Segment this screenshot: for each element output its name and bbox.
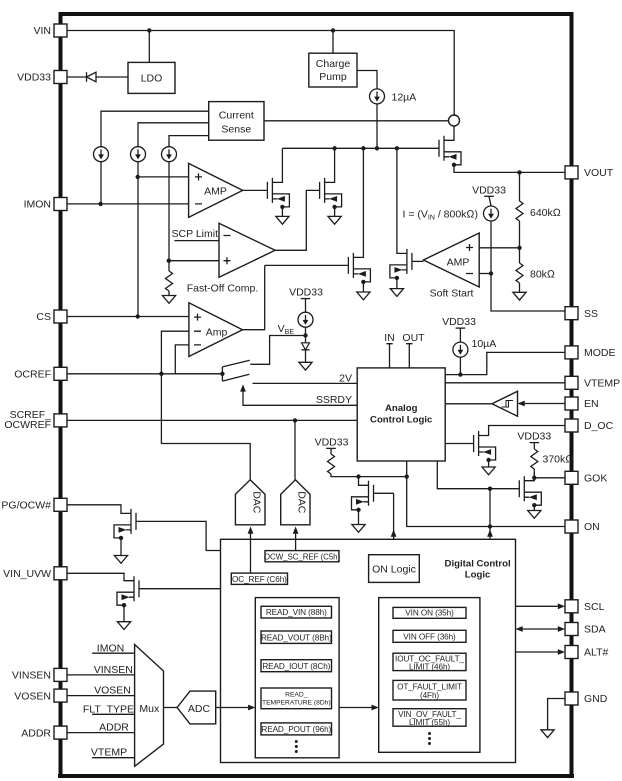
current source I2 bias — [94, 147, 109, 162]
wire VDD33 pin to diode — [67, 76, 87, 78]
pin VOUT — [565, 166, 578, 179]
wire OC_REF to DAC1 — [250, 529, 252, 573]
node GOK junction — [532, 476, 536, 480]
Current Sense block — [209, 102, 264, 141]
node SCP plus junction — [167, 259, 171, 263]
node MODE junction — [458, 372, 462, 376]
svg-text:VIN: VIN — [33, 25, 51, 37]
svg-text:VDD33: VDD33 — [442, 316, 476, 328]
register READ_VOUT (8Bh) — [261, 631, 332, 643]
pin VTEMP — [565, 376, 578, 389]
wire soft amp minus input — [479, 273, 491, 275]
ground — [114, 556, 127, 564]
svg-text:READ_VIN (88h): READ_VIN (88h) — [266, 608, 327, 617]
wire I3 top to Current Sense — [138, 123, 209, 147]
wire Q2 source to ground — [281, 207, 283, 217]
wire R1 to plus node — [519, 221, 521, 248]
node ON line crossing — [488, 524, 492, 528]
wire I1 to gate rail — [376, 104, 378, 148]
transistor Q2 — [267, 174, 289, 209]
wire I4 down to SCP plus node — [168, 162, 170, 271]
wire U4 output to Q4 gate riser — [243, 265, 265, 329]
register READ_VIN (88h) — [261, 606, 332, 618]
svg-text:OC_REF (C6h): OC_REF (C6h) — [232, 575, 287, 584]
svg-text:CS: CS — [36, 311, 51, 323]
register VIN_OV_FAULT_LIMIT (55h) — [393, 709, 466, 727]
wire I5 to soft amp minus node — [490, 221, 492, 274]
transistor Q7 GOK driver — [519, 473, 541, 508]
wire Q5 drain to rail — [396, 148, 398, 245]
wire Q4 gate lead — [265, 264, 349, 266]
register OC_REF (C6h) — [231, 573, 287, 584]
wire to I7 — [459, 328, 461, 342]
wire Charge Pump output to 12uA source — [357, 71, 377, 89]
wire PG/OCW# pin to Q9 drain — [67, 504, 121, 507]
svg-text:SCL: SCL — [584, 601, 605, 613]
wire SS line — [491, 274, 565, 312]
pin ADDR — [54, 726, 67, 739]
svg-text:Fast-Off Comp.: Fast-Off Comp. — [187, 283, 259, 295]
transistor Q3 — [320, 174, 342, 209]
node drain sense circle — [449, 115, 460, 126]
pin SDA — [565, 623, 578, 636]
svg-text:640kΩ: 640kΩ — [530, 207, 561, 219]
wire I3 down to CS line — [137, 162, 139, 317]
current source I7 10uA — [453, 342, 468, 357]
svg-text:Pump: Pump — [319, 71, 347, 83]
node ellipsis left — [295, 740, 298, 753]
wire ACL to Q6 gate — [445, 443, 473, 445]
svg-text:READ_VOUT (8Bh): READ_VOUT (8Bh) — [261, 633, 332, 642]
svg-text:VINSEN: VINSEN — [94, 664, 133, 676]
svg-text:I = (VIN / 800kΩ): I = (VIN / 800kΩ) — [403, 209, 478, 222]
DAC U7 — [281, 480, 310, 525]
wire VDD33 bar to I5 — [489, 196, 491, 206]
svg-text:DAC: DAC — [251, 491, 263, 514]
wire R4 to rail — [331, 474, 407, 477]
wire OCW_SC_REF to DAC2 — [295, 529, 297, 551]
Digital Control Logic block — [221, 539, 516, 762]
wire Q3 source to ground — [334, 207, 336, 217]
svg-text:12µA: 12µA — [392, 92, 417, 104]
wire SCL — [516, 605, 559, 607]
pin VIN — [54, 24, 67, 37]
diode D2 — [305, 336, 307, 343]
wire Q10 gate to digital box — [139, 588, 221, 590]
wire CS pin to U4 plus — [67, 316, 189, 318]
svg-text:VIN ON (35h): VIN ON (35h) — [405, 609, 454, 618]
Analog Control Logic block — [357, 368, 445, 461]
svg-text:Amp: Amp — [206, 327, 228, 339]
comparator U2 SCP Limit / Fast-Off — [219, 223, 275, 277]
op-amp U1 AMP — [189, 163, 243, 217]
wire LDO input drop — [148, 31, 150, 63]
wire mux to ADC — [164, 707, 178, 709]
svg-text:(4Fh): (4Fh) — [420, 691, 439, 700]
svg-text:VOSEN: VOSEN — [94, 684, 131, 696]
svg-text:IMON: IMON — [97, 642, 124, 654]
wire switch lower contact 2V line — [253, 382, 358, 384]
svg-text:GND: GND — [584, 693, 608, 705]
svg-text:VIN_UVW: VIN_UVW — [3, 568, 51, 580]
wire gate drive rail — [282, 147, 439, 149]
ADC U9 — [177, 691, 216, 724]
svg-text:Logic: Logic — [465, 570, 491, 581]
svg-text:Control Logic: Control Logic — [370, 415, 433, 426]
svg-text:IMON: IMON — [24, 199, 51, 211]
wire Q5 gate lead — [412, 260, 424, 262]
resistor R1 640k — [519, 172, 521, 201]
wire Q8 source to ground — [358, 510, 360, 525]
ground — [299, 362, 312, 370]
pin SCL — [565, 600, 578, 613]
diode D1 — [86, 72, 88, 82]
ground — [276, 216, 289, 224]
register OT_FAULT_LIMIT (4Fh) — [393, 680, 466, 700]
wire ON path ACL to ON pin — [407, 461, 565, 527]
node switch common — [220, 372, 224, 376]
svg-text:Analog: Analog — [385, 403, 418, 414]
wire U4 bottom minus to switch common — [175, 345, 222, 374]
node CS junction — [136, 314, 140, 318]
pin EN — [565, 397, 578, 410]
pin MODE — [565, 346, 578, 359]
ground — [328, 216, 341, 224]
register file container left — [255, 598, 339, 758]
svg-text:FLT_TYPE: FLT_TYPE — [83, 703, 134, 715]
svg-text:SS: SS — [584, 308, 598, 320]
pin SS — [565, 307, 578, 320]
wire VTEMP line — [445, 382, 565, 384]
DAC U6 — [235, 480, 265, 525]
svg-text:ADDR: ADDR — [99, 722, 129, 734]
svg-text:OCWREF: OCWREF — [4, 419, 51, 431]
svg-text:READ_IOUT (8Ch): READ_IOUT (8Ch) — [262, 662, 330, 671]
svg-text:AMP: AMP — [204, 186, 227, 198]
svg-text:OUT: OUT — [402, 332, 425, 344]
wire SCP output to Q3 gate — [275, 190, 320, 250]
node AMP plus junction — [136, 175, 140, 179]
node SCREF-DAC2 junction — [293, 418, 297, 422]
ground — [482, 467, 495, 475]
wire Q7 source to ground — [533, 505, 535, 510]
svg-text:2V: 2V — [339, 373, 352, 385]
node ellipsis right — [428, 732, 431, 745]
switch S1 — [222, 360, 249, 381]
wire EN pin to buffer — [519, 403, 565, 405]
wire switch upper contact to VBE node — [250, 336, 305, 365]
wire ACL bottom to Q7 gate line — [437, 461, 490, 489]
svg-text:VIN OFF (36h): VIN OFF (36h) — [403, 632, 456, 641]
wire OCREF pin line — [67, 373, 222, 375]
wire Q6 source to ground — [488, 460, 490, 467]
wire U4 mid minus to OCREF node — [161, 331, 189, 374]
wire Q5 source to ground — [396, 278, 398, 289]
resistor R2 80k — [519, 248, 521, 263]
svg-text:Charge: Charge — [316, 58, 351, 70]
node soft minus junction — [489, 271, 493, 275]
svg-text:MODE: MODE — [584, 347, 616, 359]
svg-text:Mux: Mux — [139, 703, 160, 715]
buffer U5 Schmitt EN — [492, 391, 518, 416]
svg-text:Soft Start: Soft Start — [430, 288, 474, 300]
svg-text:80kΩ: 80kΩ — [530, 269, 555, 281]
ground — [117, 622, 130, 630]
svg-text:EN: EN — [584, 398, 599, 410]
current source I4 bias — [162, 147, 177, 162]
wire to I6 — [305, 299, 307, 312]
svg-text:ON Logic: ON Logic — [372, 564, 416, 576]
node IMON junction — [98, 202, 102, 206]
svg-text:VINSEN: VINSEN — [12, 670, 51, 682]
node rail junctions — [332, 146, 336, 150]
svg-text:VTEMP: VTEMP — [91, 747, 127, 759]
svg-text:VDD33: VDD33 — [289, 287, 323, 299]
transistor Q5 soft-start clamp — [390, 245, 412, 280]
node VIN-LDO junction — [147, 28, 151, 32]
node VIN-ChargePump junction — [331, 28, 335, 32]
wire circle to Q1 drain — [453, 126, 455, 132]
svg-text:IN: IN — [384, 332, 395, 344]
pin OCREF — [54, 367, 67, 380]
svg-text:LIMIT (46h): LIMIT (46h) — [409, 662, 450, 671]
svg-text:ADDR: ADDR — [21, 727, 51, 739]
transistor Q10 VIN_UVW driver — [117, 573, 139, 608]
svg-text:SSRDY: SSRDY — [316, 394, 352, 406]
wire I2 to IMON line — [100, 162, 102, 204]
wire SDA — [522, 628, 559, 630]
transistor Q4 — [348, 249, 370, 284]
wire OCREF to DAC1 — [161, 374, 250, 480]
wire I7 to MODE line — [459, 357, 461, 375]
wire Q1 source to VOUT — [454, 165, 565, 173]
wire AMP output to Q2 gate — [243, 189, 268, 191]
wire R2 to ground — [519, 283, 521, 292]
wire I6 to VBE node — [305, 327, 307, 335]
svg-text:Digital Control: Digital Control — [445, 559, 511, 570]
svg-text:VTEMP: VTEMP — [584, 378, 620, 390]
ON Logic block — [369, 555, 420, 583]
svg-text:READ_: READ_ — [285, 692, 308, 699]
register READ_IOUT (8Ch) — [261, 660, 332, 672]
ground — [513, 292, 526, 300]
wire SCP plus input — [169, 260, 219, 262]
svg-text:LDO: LDO — [141, 73, 163, 85]
op-amp U3 Soft Start AMP — [423, 233, 479, 287]
svg-text:OCREF: OCREF — [14, 369, 51, 381]
current source I6 VBE bias — [298, 312, 313, 327]
register IOUT_OC_FAULT_LIMIT (46h) — [393, 653, 466, 670]
ground — [162, 296, 175, 304]
register OCW_SC_REF (C5h) — [265, 551, 339, 562]
node Q7 gate junction — [488, 487, 492, 491]
svg-text:TEMPERATURE (8Dh): TEMPERATURE (8Dh) — [262, 700, 331, 707]
register VIN ON (35h) — [393, 607, 466, 618]
transistor Q6 D_OC driver — [474, 428, 496, 463]
current source I5 soft-start — [484, 206, 499, 221]
wire Q4 source to ground — [362, 282, 364, 292]
node divider junction — [517, 246, 521, 250]
wire Q10 source to ground — [123, 605, 125, 622]
wire VIN_UVW pin to Q10 drain — [67, 572, 124, 575]
pin ALT# — [565, 646, 578, 659]
wire AMP plus input — [138, 176, 189, 178]
node OCREF junction — [159, 372, 163, 376]
svg-text:Current: Current — [219, 110, 254, 122]
svg-text:GOK: GOK — [584, 473, 607, 485]
wire buffer output to ACL — [445, 403, 492, 405]
svg-text:DAC: DAC — [296, 491, 308, 514]
pin CS — [54, 310, 67, 323]
wire VIN rail — [67, 31, 454, 115]
pin IMON — [54, 198, 67, 211]
wire I2 top to Current Sense — [101, 111, 209, 147]
svg-text:370kΩ: 370kΩ — [543, 454, 574, 466]
pin PG/OCW# — [54, 498, 67, 511]
pin VDD33 — [54, 71, 67, 84]
svg-text:READ_POUT (96h): READ_POUT (96h) — [261, 725, 331, 734]
svg-text:LIMIT (55h): LIMIT (55h) — [409, 718, 450, 727]
pin VIN_UVW — [54, 567, 67, 580]
current source I3 bias — [131, 147, 146, 162]
svg-text:SCP Limit: SCP Limit — [172, 228, 219, 240]
svg-text:VDD33: VDD33 — [17, 72, 51, 84]
svg-text:ADC: ADC — [188, 703, 211, 715]
svg-text:D_OC: D_OC — [584, 420, 614, 432]
LDO block — [128, 62, 175, 93]
resistor R4 — [330, 448, 332, 454]
register file container right — [379, 598, 480, 753]
transistor Q1 output pass FET — [439, 132, 461, 167]
pin GND — [565, 692, 578, 705]
wire R3 to GOK node — [533, 469, 535, 478]
ground — [352, 525, 365, 533]
node VDD33 rail junction — [405, 474, 409, 478]
ground — [541, 730, 554, 738]
wire SCREF to DAC2 — [294, 420, 296, 479]
wire R5 to ground — [168, 291, 170, 296]
wire Q3 drain to rail — [334, 148, 336, 174]
ground — [390, 289, 403, 297]
wire Q2 drain to rail — [281, 148, 283, 174]
node Q8 drain junction — [356, 474, 360, 478]
wire IMON pin to AMP minus — [67, 203, 189, 205]
wire Q8 gate to ON Logic — [374, 493, 394, 554]
node VOUT divider tap — [517, 170, 521, 174]
wire Q9 source to ground — [120, 538, 122, 556]
resistor R3 370k — [533, 443, 535, 449]
Charge Pump block — [309, 53, 357, 87]
wire Q6 drain to D_OC pin — [489, 426, 565, 428]
wire Q7 gate control from digital box — [489, 489, 491, 539]
svg-text:VOUT: VOUT — [584, 167, 614, 179]
wire soft amp plus input — [479, 247, 519, 249]
wire ALT# — [516, 651, 559, 653]
current source I1 12uA — [370, 89, 385, 104]
wire Charge Pump input drop — [332, 31, 334, 54]
svg-text:VDD33: VDD33 — [315, 437, 349, 449]
svg-text:OCW_SC_REF (C5h): OCW_SC_REF (C5h) — [264, 552, 341, 561]
wire Q4 drain to rail — [362, 148, 364, 249]
register READ_POUT (96h) — [261, 723, 332, 735]
svg-text:VDD33: VDD33 — [517, 431, 551, 443]
pin SCREF_/OCWREF — [54, 414, 67, 427]
wire SCREF_OCWREF line — [67, 419, 357, 421]
ground — [528, 511, 541, 519]
wire I4 top to Current Sense — [169, 136, 209, 147]
pin VINSEN — [54, 668, 67, 681]
svg-text:VBE: VBE — [278, 323, 295, 336]
pin VOSEN — [54, 689, 67, 702]
wire Q9 gate to digital box — [136, 521, 221, 550]
svg-text:SDA: SDA — [584, 624, 606, 636]
svg-text:PG/OCW#: PG/OCW# — [1, 500, 51, 512]
svg-text:Sense: Sense — [221, 124, 251, 136]
pin GOK — [565, 471, 578, 484]
resistor R5 — [166, 271, 173, 291]
wire diode to LDO — [96, 76, 128, 78]
mux U8 — [135, 645, 164, 767]
wire Q7 gate from digital — [490, 488, 519, 490]
wire ADC to registers arrow — [216, 707, 249, 709]
pin D_OC — [565, 419, 578, 432]
wire Current Sense output to drain node — [264, 120, 449, 122]
wire GOK pin — [534, 477, 565, 479]
wire MODE path — [445, 352, 565, 374]
wire SSRDY with control arrow — [243, 390, 357, 406]
svg-text:ALT#: ALT# — [584, 647, 608, 659]
svg-text:VOSEN: VOSEN — [14, 690, 51, 702]
wire Q8 drain — [358, 476, 360, 479]
wire GND to ground — [548, 699, 565, 730]
op-amp U4 VBE Amp (3-input) — [189, 303, 243, 357]
wire container to container arrow — [339, 707, 372, 709]
svg-text:10µA: 10µA — [472, 338, 497, 350]
register READ_TEMPERATURE (8Dh) — [261, 688, 332, 709]
pin ON — [565, 520, 578, 533]
register VIN OFF (36h) — [393, 630, 466, 642]
svg-text:VDD33: VDD33 — [472, 185, 506, 197]
transistor Q8 ON logic FET — [352, 477, 374, 512]
node VBE junction — [303, 333, 307, 337]
svg-text:ON: ON — [584, 521, 600, 533]
svg-text:AMP: AMP — [447, 257, 470, 269]
ground — [357, 292, 370, 300]
transistor Q9 PG/OCW# driver — [114, 505, 136, 540]
